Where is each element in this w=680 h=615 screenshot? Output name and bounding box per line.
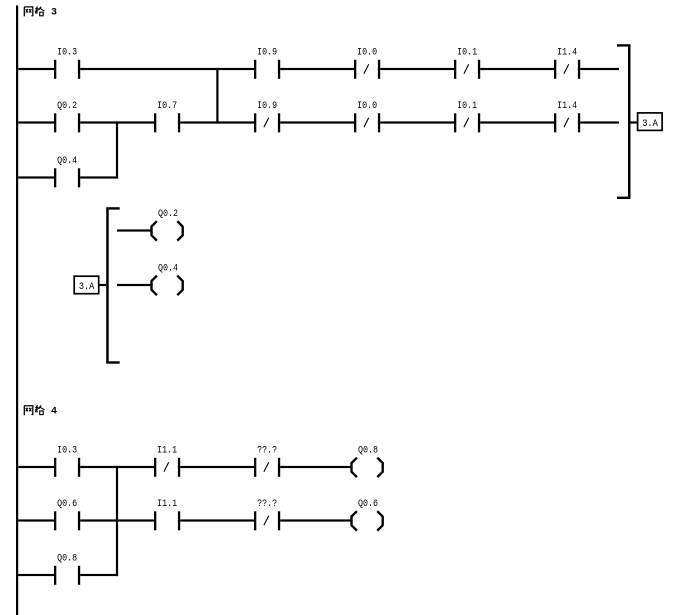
wire n3 rung2 I0.7 to I0.9 bbox=[180, 121, 254, 123]
wire n4 rung1 I0.3 to I1.1 bbox=[80, 466, 154, 468]
svg-text:Q0.8: Q0.8 bbox=[358, 446, 378, 457]
wire n3 rung2 I0.1 to I1.4 bbox=[480, 121, 554, 123]
contact Q0.6 (contact) bbox=[54, 499, 80, 530]
svg-text:I0.1: I0.1 bbox=[457, 101, 477, 112]
branch bracket left (3.A continuation) bbox=[106, 207, 120, 364]
svg-text:3.A: 3.A bbox=[642, 119, 658, 130]
contact ??.? (n4 rung2) (NC) bbox=[254, 499, 280, 530]
svg-text:3: 3 bbox=[51, 8, 57, 19]
left power rail bbox=[16, 6, 18, 615]
wire n4 branch rung1-rung3 junction bbox=[116, 466, 118, 576]
wire n3 rung1 I1.4 to merge bbox=[580, 68, 619, 70]
wire n3 rung2 I0.9 to I0.0 bbox=[280, 121, 354, 123]
svg-text:Q0.4: Q0.4 bbox=[57, 156, 77, 167]
wire n3 rung3 rail to Q0.4 bbox=[18, 176, 54, 178]
contact I1.1 (n4 rung1, NC) (NC) bbox=[154, 446, 180, 477]
contact Q0.2 (contact) bbox=[54, 101, 80, 132]
svg-text:Q0.6: Q0.6 bbox=[57, 499, 77, 510]
svg-text:Q0.2: Q0.2 bbox=[158, 209, 178, 220]
wire n3 rung2 rail to Q0.2 bbox=[18, 121, 54, 123]
svg-text:3.A: 3.A bbox=[79, 282, 95, 293]
wire n3 rung1 I0.3 to I0.9 bbox=[80, 68, 254, 70]
svg-text:I1.4: I1.4 bbox=[557, 48, 577, 59]
wire n4 rung1 I1.1 to ??.? bbox=[180, 466, 254, 468]
svg-text:Q0.8: Q0.8 bbox=[57, 554, 77, 565]
network title network 3 bbox=[24, 7, 57, 19]
svg-text:I0.9: I0.9 bbox=[257, 101, 277, 112]
wire n3 rung1 I0.0 to I0.1 bbox=[380, 68, 454, 70]
svg-text:I0.3: I0.3 bbox=[57, 48, 77, 59]
svg-text:I0.0: I0.0 bbox=[357, 48, 377, 59]
coil Q0.2 bbox=[152, 209, 183, 240]
wire n3 branch rung2-rung3 junction bbox=[116, 121, 118, 178]
continuation box 3.A (left) bbox=[74, 276, 99, 294]
svg-text:I0.0: I0.0 bbox=[357, 101, 377, 112]
wire n3 rung2 I1.4 to merge bbox=[580, 121, 619, 123]
wire n3 branch rung1-rung2 junction bbox=[216, 68, 218, 124]
contact Q0.8 (contact) bbox=[54, 554, 80, 585]
wire n4 rung3 rail to Q0.8 bbox=[18, 574, 54, 576]
contact I0.9 (rung2, NC) (NC) bbox=[254, 101, 280, 132]
coil Q0.8 bbox=[352, 446, 383, 477]
svg-text:I0.1: I0.1 bbox=[457, 48, 477, 59]
coil Q0.4 bbox=[152, 264, 183, 295]
merge bracket right (network 3) bbox=[617, 44, 631, 199]
wire 3.A box to bracket connector bbox=[99, 284, 107, 286]
wire n3 rung2 Q0.2 to I0.7 bbox=[80, 121, 154, 123]
contact I1.1 (n4 rung2) bbox=[154, 499, 180, 530]
contact I0.0 (rung1) (NC) bbox=[354, 48, 380, 79]
wire n4 rung3 Q0.8 to branch bbox=[80, 574, 118, 576]
contact I0.1 (rung1) (NC) bbox=[454, 48, 480, 79]
network title network 4 bbox=[24, 405, 57, 417]
wire n3 rung3 Q0.4 to branch bbox=[80, 176, 118, 178]
svg-text:I0.7: I0.7 bbox=[157, 101, 177, 112]
svg-text:4: 4 bbox=[51, 406, 57, 417]
svg-text:I1.4: I1.4 bbox=[557, 101, 577, 112]
wire n3 rung1 I0.9 to I0.0 bbox=[280, 68, 354, 70]
svg-text:??.?: ??.? bbox=[257, 499, 277, 510]
contact I0.3 bbox=[54, 48, 80, 79]
contact I1.4 (rung1) (NC) bbox=[554, 48, 580, 79]
wire n3 rung2 I0.0 to I0.1 bbox=[380, 121, 454, 123]
contact Q0.4 (contact) bbox=[54, 156, 80, 187]
continuation box 3.A (right) bbox=[638, 113, 663, 130]
contact I0.7 bbox=[154, 101, 180, 132]
contact I1.4 (rung2) (NC) bbox=[554, 101, 580, 132]
contact ??.? (n4 rung1) (NC) bbox=[254, 446, 280, 477]
contact I0.0 (rung2) (NC) bbox=[354, 101, 380, 132]
svg-text:??.?: ??.? bbox=[257, 446, 277, 457]
wire bracket to 3.A box connector bbox=[631, 121, 638, 123]
contact I0.9 bbox=[254, 48, 280, 79]
svg-text:Q0.6: Q0.6 bbox=[358, 499, 378, 510]
wire n4 rung2 I1.1 to ??.? bbox=[180, 519, 254, 521]
svg-text:I1.1: I1.1 bbox=[157, 499, 177, 510]
wire n4 rung1 ??.? to coil bbox=[280, 466, 351, 468]
wire n3 rung1 I0.1 to I1.4 bbox=[480, 68, 554, 70]
wire n4 rung2 ??.? to coil bbox=[280, 519, 351, 521]
svg-text:I0.3: I0.3 bbox=[57, 446, 77, 457]
wire n4 rung2 Q0.6 to I1.1 bbox=[80, 519, 154, 521]
wire n4 rung2 rail to Q0.6 bbox=[18, 519, 54, 521]
wire n3 rung1 rail to I0.3 bbox=[18, 68, 54, 70]
wire n4 rung1 rail to I0.3 bbox=[18, 466, 54, 468]
svg-text:I1.1: I1.1 bbox=[157, 446, 177, 457]
wire coil rung Q0.4 bbox=[117, 284, 152, 286]
svg-text:I0.9: I0.9 bbox=[257, 48, 277, 59]
contact I0.3 (n4) bbox=[54, 446, 80, 477]
contact I0.1 (rung2) (NC) bbox=[454, 101, 480, 132]
wire coil rung Q0.2 bbox=[117, 229, 152, 231]
coil Q0.6 bbox=[352, 499, 383, 530]
svg-text:Q0.2: Q0.2 bbox=[57, 101, 77, 112]
svg-text:Q0.4: Q0.4 bbox=[158, 264, 178, 275]
